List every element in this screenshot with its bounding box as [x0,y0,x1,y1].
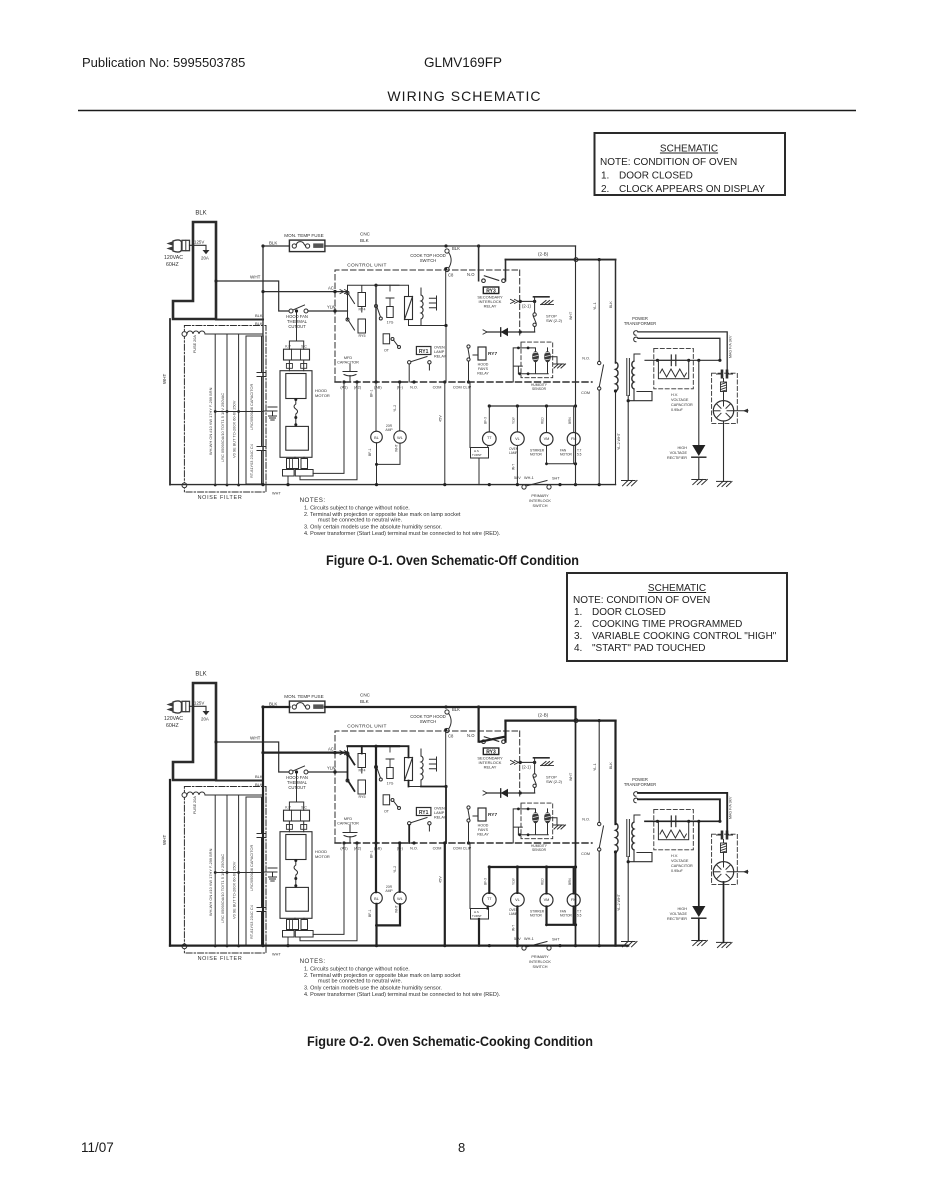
svg-text:8: 8 [458,1140,465,1155]
bold 2-B wire [506,719,616,721]
svg-text:11/07: 11/07 [81,1140,114,1155]
bold top wire [263,707,576,721]
svg-text:1.: 1. [601,171,609,182]
svg-text:CLOCK APPEARS ON DISPLAY: CLOCK APPEARS ON DISPLAY [619,184,765,195]
svg-text:3.: 3. [574,631,582,642]
bold lamp drops [376,843,400,946]
bold control unit inner bus [348,746,400,843]
svg-text:SCHEMATIC: SCHEMATIC [648,583,706,594]
note box 2 [567,573,787,661]
bold trunk wire [262,707,264,946]
schematic figure O-1 [162,211,748,538]
bold relay contact chain [263,746,362,791]
bold vertical wire 1 [575,721,577,946]
svg-text:GLMV169FP: GLMV169FP [424,55,502,70]
svg-text:2.: 2. [574,619,582,630]
svg-text:Figure O-2. Oven Schematic-Coo: Figure O-2. Oven Schematic-Cooking Condi… [307,1033,593,1049]
svg-text:NOTE: CONDITION OF OVEN: NOTE: CONDITION OF OVEN [600,157,737,168]
svg-text:Figure O-1. Oven Schematic-Off: Figure O-1. Oven Schematic-Off Condition [326,552,579,568]
svg-text:"START" PAD TOUCHED: "START" PAD TOUCHED [592,643,705,654]
bold overlay for cooking condition [170,707,727,946]
bold transformer primary feed [614,721,616,946]
svg-text:SCHEMATIC: SCHEMATIC [660,144,718,155]
bold RY2 relay path [479,707,506,742]
svg-text:Publication No: 5995503785: Publication No: 5995503785 [82,55,245,70]
bold motor feed wires [445,843,576,946]
bold HV horizontal wire [645,821,720,906]
svg-text:COOKING TIME PROGRAMMED: COOKING TIME PROGRAMMED [592,619,742,630]
svg-text:2.: 2. [601,184,609,195]
svg-text:4.: 4. [574,643,582,654]
svg-text:1.: 1. [574,607,582,618]
bold magnetron ground wire [699,882,724,942]
header rule [78,110,856,112]
note box 1 [595,133,786,195]
bold neutral bus [170,944,628,946]
svg-text:VARIABLE COOKING CONTROL "HIGH: VARIABLE COOKING CONTROL "HIGH" [592,631,777,642]
schematic figure O-2 [162,672,748,999]
svg-text:DOOR CLOSED: DOOR CLOSED [592,607,666,618]
bold HV loop wires [638,793,727,834]
bold control relay coil feed [376,746,446,843]
bold left cord vertical [169,780,171,946]
svg-text:WIRING SCHEMATIC: WIRING SCHEMATIC [387,88,541,104]
svg-text:DOOR CLOSED: DOOR CLOSED [619,171,693,182]
bold AC feed wire [263,751,348,753]
svg-text:NOTE: CONDITION OF OVEN: NOTE: CONDITION OF OVEN [573,595,710,606]
